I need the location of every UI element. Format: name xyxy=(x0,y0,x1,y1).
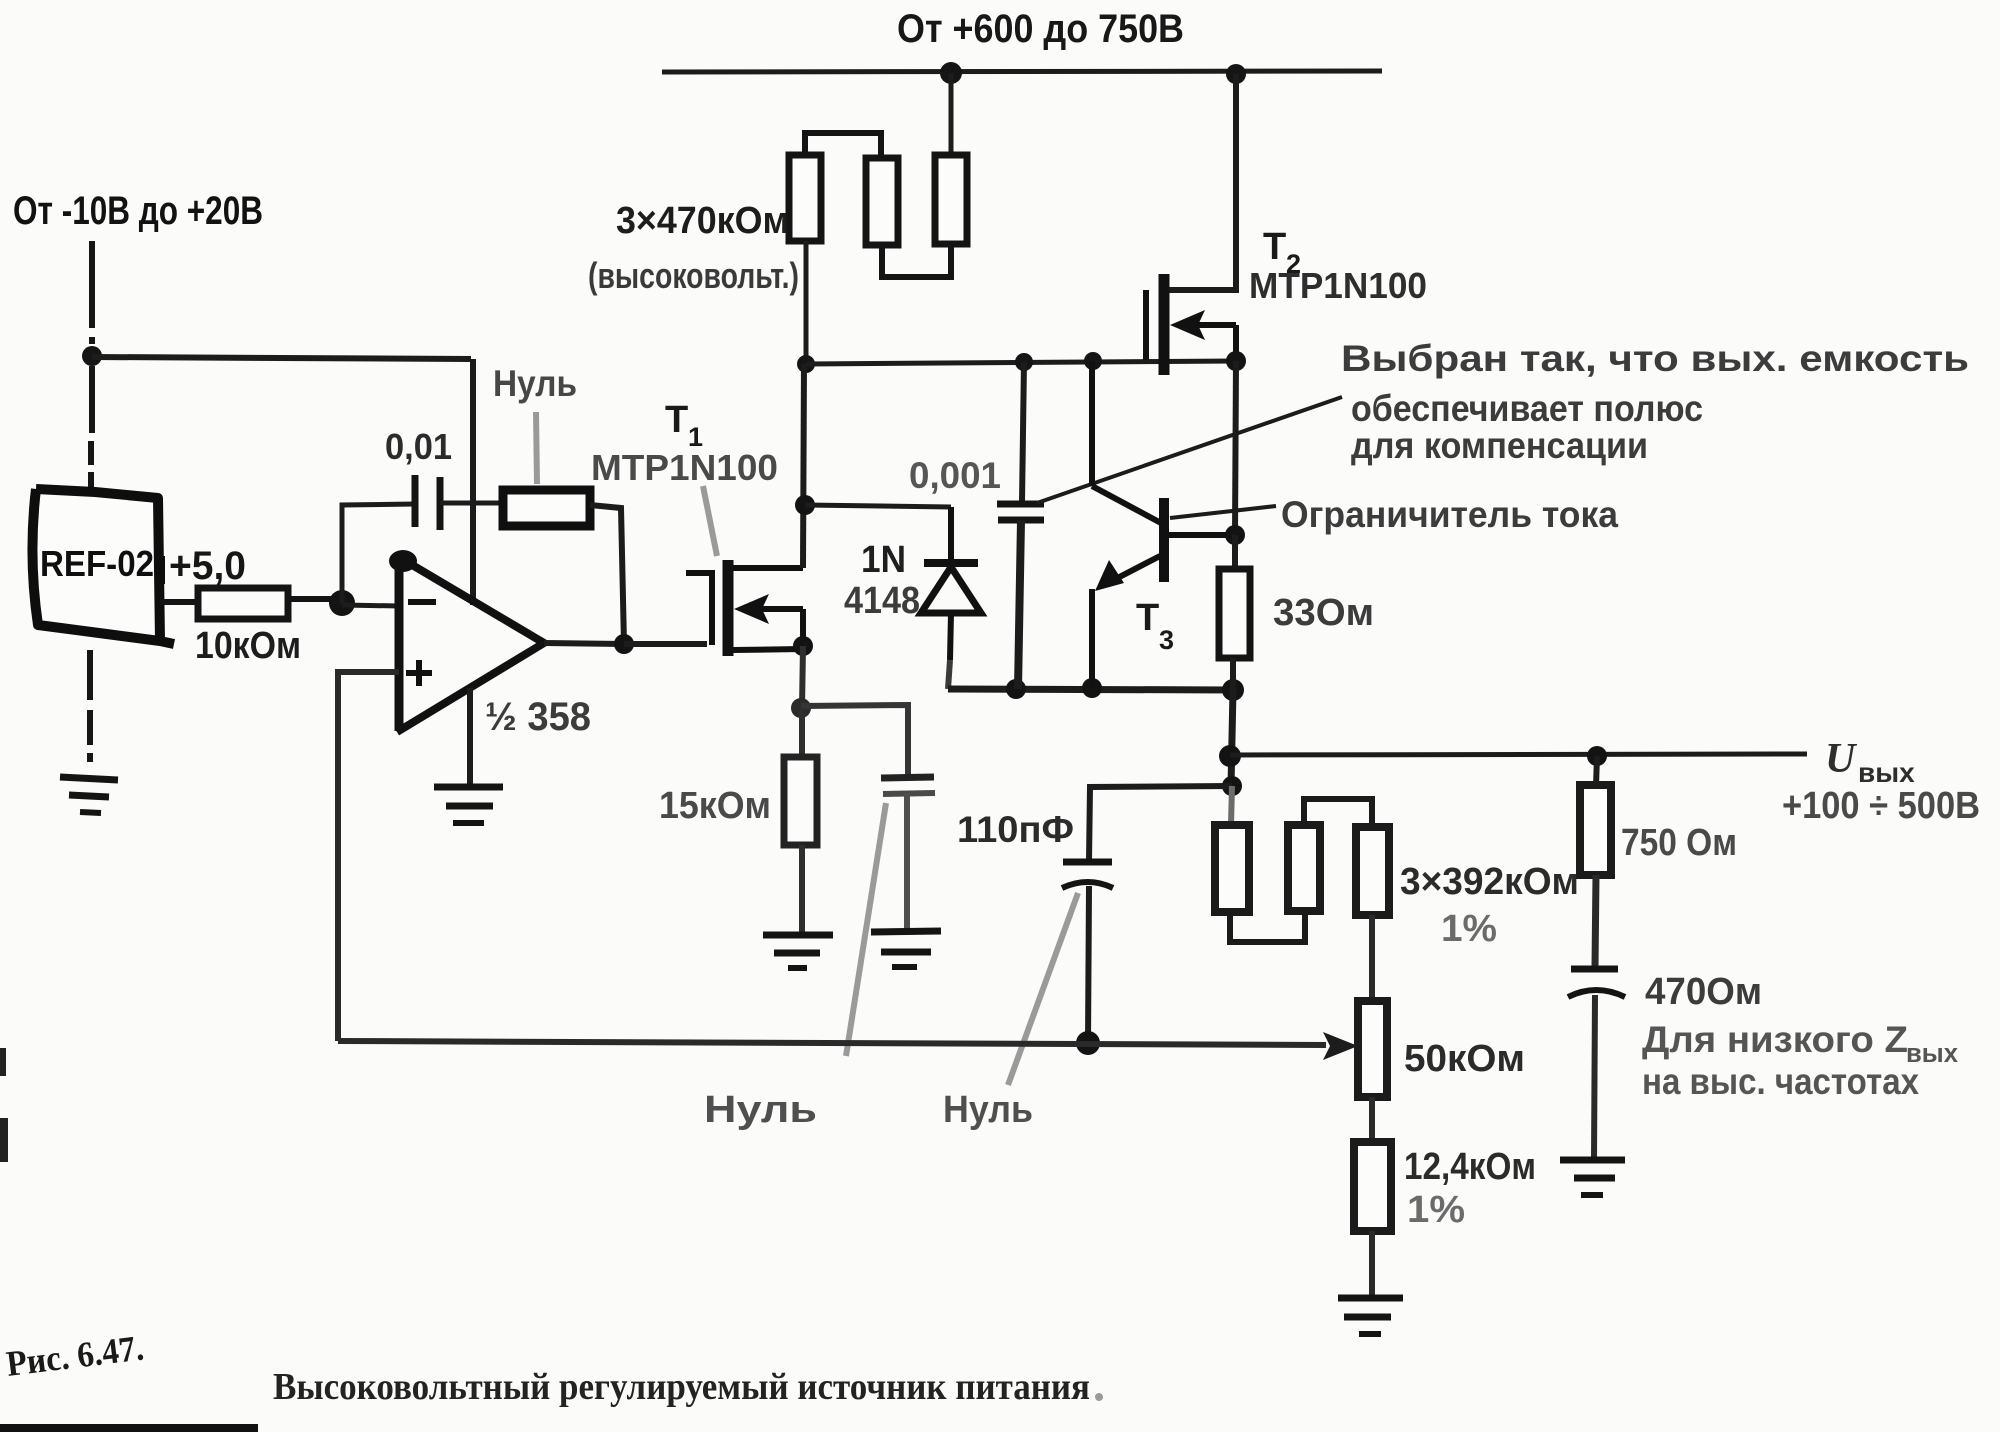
svg-text:MTP1N100: MTP1N100 xyxy=(591,447,778,488)
wire 33 Ohm to bottom rail node xyxy=(1230,658,1236,690)
svg-text:3×470кОм: 3×470кОм xyxy=(616,200,789,242)
trimmer resistor Нуль (offset null) xyxy=(503,490,590,526)
wire input node to feedback top corner xyxy=(92,357,471,359)
capacitor 0.01 left plate xyxy=(412,475,419,527)
svg-text:REF-02: REF-02 xyxy=(40,543,154,584)
wire bottom U-link between 470k B and C xyxy=(882,244,951,277)
IC REF-02 box xyxy=(32,489,174,644)
wire tap node to 110pF corner xyxy=(1089,786,1232,861)
svg-text:U: U xyxy=(1825,736,1858,782)
wire tap node down to 392k chain (faded) xyxy=(1231,786,1232,825)
capacitor null trim bottom plate xyxy=(883,793,935,794)
arrow T3 emitter xyxy=(1095,560,1124,591)
svg-text:1%: 1% xyxy=(1407,1189,1465,1231)
capacitor 0.001 bottom lead xyxy=(1018,520,1021,689)
diode 1N4148 xyxy=(921,507,981,689)
node bottom rail / 0.001 cap xyxy=(1006,679,1026,699)
net +600..750V supply rail xyxy=(662,71,1382,72)
resistor 3x470k unit B (middle) xyxy=(866,158,898,245)
pin tick +5.0 output of REF-02 xyxy=(157,556,165,584)
annotation grey lead from Нуль label to trimmer xyxy=(536,412,537,484)
wire supply rail to R 3x470k (res3 top) xyxy=(949,73,954,155)
wire 15k to ground xyxy=(799,845,805,935)
wire 12.4k to ground xyxy=(1369,1231,1375,1300)
wire T1 source down to 15k node xyxy=(802,646,803,708)
junction on supply rail above 470k chain xyxy=(940,62,962,84)
wire top U-link between 470k A and B xyxy=(805,133,881,158)
resistor 33 Ohm xyxy=(1219,569,1250,658)
caption trailing dot xyxy=(1095,1393,1103,1401)
svg-text:110пФ: 110пФ xyxy=(957,809,1074,850)
svg-text:(высоковольт.): (высоковольт.) xyxy=(588,255,799,296)
node inverting input junction xyxy=(329,590,355,616)
svg-text:10кОм: 10кОм xyxy=(195,625,301,667)
svg-text:0,01: 0,01 xyxy=(385,426,452,467)
node divider tap under Uout rail xyxy=(1222,776,1242,796)
capacitor 0.001 top plate xyxy=(997,501,1044,508)
svg-text:Т: Т xyxy=(1136,597,1159,639)
wire node to 33 Ohm xyxy=(1232,535,1238,570)
resistor 15k xyxy=(784,757,817,845)
node bottom rail / T3 emitter xyxy=(1082,678,1102,698)
net feedback rail to 50k wiper arrow xyxy=(338,1041,1326,1045)
ground below input source xyxy=(60,777,118,813)
scan artifact bottom bar xyxy=(0,1424,258,1432)
svg-text:4148: 4148 xyxy=(844,580,920,622)
annotation line from text to T3 xyxy=(1170,506,1276,518)
svg-text:От -10В до +20В: От -10В до +20В xyxy=(13,189,263,233)
svg-text:MTP1N100: MTP1N100 xyxy=(1249,265,1427,306)
svg-text:От +600 до 750В: От +600 до 750В xyxy=(897,7,1184,51)
resistor 3x392k unit A (left) xyxy=(1215,825,1249,912)
node T3 base / 33 Ohm top xyxy=(1225,525,1245,545)
svg-text:+5,0: +5,0 xyxy=(169,544,246,588)
svg-text:Ограничитель тока: Ограничитель тока xyxy=(1281,494,1618,535)
wire gate rail y=362 from 470k node to T2 source node xyxy=(806,361,1236,364)
transistor Q3 current limiter xyxy=(1092,361,1235,688)
svg-text:3×392кОм: 3×392кОм xyxy=(1400,861,1579,903)
wire bottom U-link 392k A-B xyxy=(1230,911,1305,942)
capacitor 0.001 top lead xyxy=(1022,362,1024,502)
wire 750 Ohm to 470 cap xyxy=(1595,875,1596,967)
capacitor 470 top plate xyxy=(1571,966,1618,973)
node bottom rail / 33 Ohm xyxy=(1222,679,1244,701)
resistor 3x392k unit C (right) xyxy=(1356,827,1389,915)
resistor 3x470k unit C (right) xyxy=(935,155,967,244)
resistor 750 Ohm xyxy=(1580,785,1611,875)
svg-text:50кОм: 50кОм xyxy=(1404,1038,1525,1080)
resistor 12.4k xyxy=(1354,1142,1391,1231)
arrow wiper into 50k xyxy=(1323,1032,1358,1060)
svg-text:15кОм: 15кОм xyxy=(659,785,771,827)
resistor 3x470k unit A (left) xyxy=(789,155,821,241)
opamp plus sign xyxy=(406,660,432,686)
svg-text:для компенсации: для компенсации xyxy=(1351,425,1648,466)
wire feedback corner up from inverting node xyxy=(342,504,415,604)
ground below 12.4k xyxy=(1338,1298,1403,1334)
junction gate rail / T3 collector xyxy=(1084,352,1102,370)
svg-text:3: 3 xyxy=(1159,625,1174,655)
svg-text:750 Ом: 750 Ом xyxy=(1621,822,1737,864)
svg-text:Нуль: Нуль xyxy=(704,1089,817,1131)
wire 110pF to feedback rail xyxy=(1088,886,1089,1043)
junction on supply rail above T2 xyxy=(1226,64,1246,84)
node Uout rail xyxy=(1219,745,1241,767)
svg-text:1N: 1N xyxy=(861,539,906,581)
node Uout rail / 750 Ohm xyxy=(1587,746,1607,766)
svg-text:вых: вых xyxy=(1858,757,1915,788)
node T1 drain / diode feed xyxy=(795,495,815,515)
svg-text:1%: 1% xyxy=(1441,908,1497,950)
capacitor null trim top plate xyxy=(881,777,934,778)
wire output column down to Uout rail xyxy=(1231,690,1233,786)
resistor 3x392k unit B (middle) xyxy=(1288,825,1320,911)
transistor Q1 MOSFET symbol xyxy=(686,560,803,656)
annotation grey lead right Нуль to 110pF cap xyxy=(1008,893,1078,1085)
wire 50k to 12.4k xyxy=(1369,1097,1375,1143)
wire null trimmer to opamp output node xyxy=(590,505,624,644)
node T1 source xyxy=(793,636,813,656)
wire REF-02 to 10k resistor xyxy=(160,599,200,605)
svg-text:470Ом: 470Ом xyxy=(1645,971,1762,1013)
node at 470k bottom on gate rail xyxy=(797,355,815,373)
svg-text:обеспечивает полюс: обеспечивает полюс xyxy=(1351,388,1703,429)
wire 392k C down to 50k pot xyxy=(1369,915,1375,1002)
svg-text:12,4кОм: 12,4кОм xyxy=(1404,1146,1536,1188)
svg-text:0,001: 0,001 xyxy=(909,455,1001,496)
svg-text:Высоковольтный регулируемый ис: Высоковольтный регулируемый источник пит… xyxy=(273,1366,1090,1408)
wire null cap to ground xyxy=(904,793,910,930)
capacitor 0.01 right plate xyxy=(437,477,444,530)
wire T1 drain node to 1N4148 cathode xyxy=(805,505,951,507)
capacitor 470 bottom plate (curved) xyxy=(1568,990,1625,997)
wire bottom rail diode anode to output column xyxy=(948,689,1233,690)
capacitor 110pF top plate xyxy=(1063,859,1112,866)
svg-text:Т: Т xyxy=(1263,226,1286,268)
capacitor 0.001 bottom plate xyxy=(998,517,1044,524)
wire 470k chain down to T1 drain node xyxy=(804,241,809,364)
wire T2 drain from supply rail xyxy=(1168,74,1236,290)
arrow T1 body (points into channel) xyxy=(734,594,769,624)
wire dashed input lead above node xyxy=(89,241,95,344)
wire 0.01 cap to null trim resistor xyxy=(440,501,504,506)
svg-text:Т: Т xyxy=(665,399,688,441)
node opamp output / null trimmer xyxy=(614,634,634,654)
ground below null cap xyxy=(871,931,941,967)
wire 10k to inverting input node xyxy=(288,596,335,602)
arrow T2 body (points into channel) xyxy=(1170,310,1205,340)
wire T2 source down to T3 base node xyxy=(1235,361,1236,535)
wire dashed lead node to REF-02 xyxy=(91,366,92,490)
node 15k / null cap junction xyxy=(791,698,811,718)
node feedback rail / 110pF xyxy=(1076,1031,1100,1055)
ground below 470 cap xyxy=(1560,1160,1625,1195)
potentiometer 50k body xyxy=(1358,1001,1387,1097)
resistor 10k (horizontal) xyxy=(198,588,288,619)
transistor Q2 MOSFET symbol xyxy=(1146,274,1236,375)
wire junction to null cap corner xyxy=(801,705,908,775)
opamp minus sign xyxy=(408,599,436,605)
svg-text:½ 358: ½ 358 xyxy=(485,695,591,739)
wire T1 drain up to 470k node xyxy=(803,364,804,568)
svg-text:Нуль: Нуль xyxy=(943,1089,1033,1131)
wire dashed lead below REF-02 xyxy=(87,650,93,762)
svg-text:+100 ÷ 500В: +100 ÷ 500В xyxy=(1782,785,1980,827)
svg-text:Выбран так, что вых. емкость: Выбран так, что вых. емкость xyxy=(1341,338,1969,379)
wire 470 cap to ground xyxy=(1594,995,1595,1160)
wire top U-link 392k B-C xyxy=(1304,799,1372,827)
wire node to opamp inverting input xyxy=(342,605,400,606)
wire noninverting input to feedback rail corner xyxy=(338,672,399,1041)
net Uout rail xyxy=(1230,754,1807,755)
capacitor 110pF bottom plate (curved) xyxy=(1062,882,1113,888)
svg-text:Для низкого Z: Для низкого Z xyxy=(1642,1019,1908,1060)
wire opamp output xyxy=(544,643,624,644)
annotation grey lead left Нуль to cap xyxy=(846,803,886,1056)
op-amp 1/2 358 triangle xyxy=(397,556,544,732)
ground below 15k xyxy=(763,935,833,968)
svg-text:33Ом: 33Ом xyxy=(1273,592,1374,634)
wire output node to T1 gate xyxy=(624,641,707,647)
annotation line from text to 0.001 cap xyxy=(1037,397,1342,503)
annotation grey lead from T1 label to gate xyxy=(703,486,717,556)
wire opamp ground stub xyxy=(467,688,473,788)
node input junction xyxy=(82,346,102,366)
scan artifact left edge marks xyxy=(0,1048,6,1076)
wire vertical x=473 down to 0.01/null junction and opamp xyxy=(470,359,476,605)
wire 750 Ohm from Uout rail xyxy=(1596,756,1597,786)
ground below opamp xyxy=(434,787,503,823)
ink blob at opamp corner xyxy=(389,550,417,572)
junction gate rail / 0.001 cap xyxy=(1015,353,1033,371)
svg-text:Нуль: Нуль xyxy=(493,363,577,404)
wire junction down to 15k xyxy=(799,708,805,757)
svg-text:на выс. частотах: на выс. частотах xyxy=(1642,1061,1919,1102)
node T2 source xyxy=(1226,351,1246,371)
